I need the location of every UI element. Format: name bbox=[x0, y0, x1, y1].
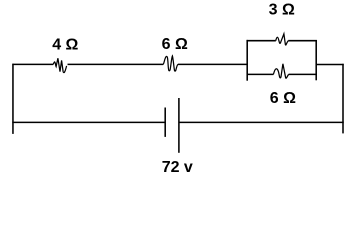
wire: parallel top branch left bbox=[247, 40, 276, 42]
wire: bottom-right horizontal from battery bbox=[179, 121, 344, 123]
battery V1 positive plate (long) bbox=[178, 98, 180, 153]
wire: parallel bottom branch left bbox=[247, 73, 274, 75]
wire: left vertical of outer loop bbox=[12, 64, 14, 134]
svg-text:6 Ω: 6 Ω bbox=[270, 90, 296, 107]
wire: top middle horizontal segment bbox=[68, 63, 164, 65]
svg-text:72 v: 72 v bbox=[162, 159, 193, 176]
wire: top-right horizontal from parallel box bbox=[316, 64, 344, 66]
wire: bottom-left horizontal to battery bbox=[12, 121, 165, 123]
svg-text:6 Ω: 6 Ω bbox=[162, 36, 188, 53]
wire: top horizontal to parallel box bbox=[178, 63, 248, 65]
battery V1 negative plate (short) bbox=[164, 108, 166, 137]
resistor 6 ohm (parallel) bbox=[273, 64, 288, 78]
wire: parallel bottom branch right bbox=[289, 73, 317, 75]
svg-text:4 Ω: 4 Ω bbox=[52, 37, 78, 54]
wire: top-left horizontal segment bbox=[12, 63, 53, 65]
resistor 6 ohm (series) bbox=[163, 56, 178, 71]
node: parallel box left bar bbox=[246, 40, 248, 81]
resistor 3 ohm bbox=[276, 34, 289, 45]
svg-text:3 Ω: 3 Ω bbox=[269, 1, 295, 18]
wire: parallel top branch right bbox=[288, 40, 317, 42]
wire: right vertical of outer loop bbox=[342, 64, 344, 134]
node: parallel box right bar bbox=[315, 40, 317, 80]
resistor 4 ohm bbox=[53, 58, 66, 72]
